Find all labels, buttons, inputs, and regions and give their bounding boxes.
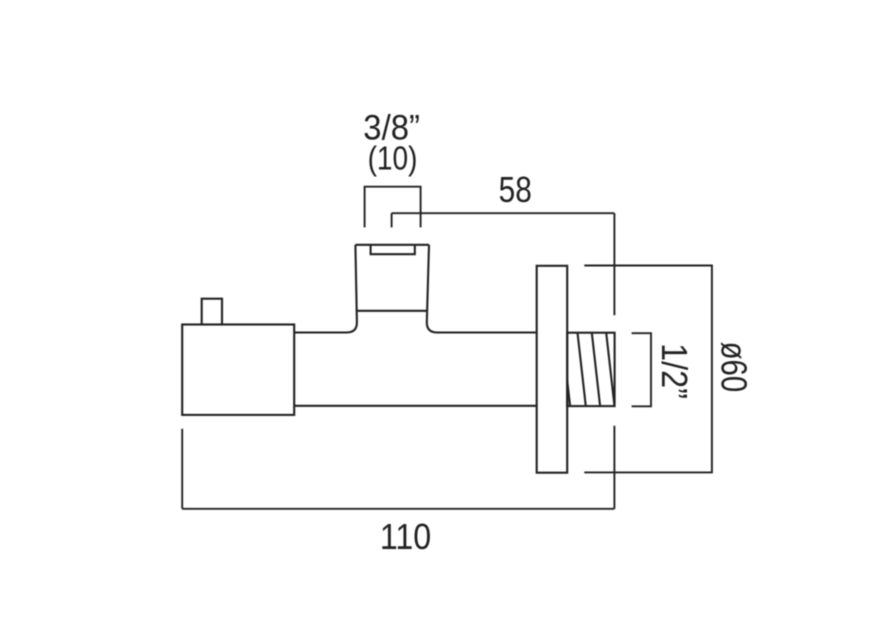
svg-text:110: 110	[380, 517, 431, 557]
handle block (valve body left head)	[182, 325, 294, 415]
outlet top edge	[355, 244, 429, 246]
threaded stub	[567, 333, 614, 406]
dimension 110 extension line	[181, 429, 183, 509]
svg-text:58: 58	[499, 170, 532, 211]
svg-text:1/2”: 1/2”	[654, 343, 694, 399]
knob (valve handle stem)	[202, 299, 222, 325]
wall flange	[537, 266, 568, 473]
outlet left wall with fillet into tube top	[294, 245, 357, 333]
outlet top lip	[371, 245, 415, 254]
dimension bracket 3/8	[365, 187, 421, 228]
dimension line 58 tick	[391, 213, 393, 227]
svg-text:ø60: ø60	[713, 342, 754, 393]
outlet right wall with fillet into tube top	[427, 245, 537, 333]
dimension 58 extension line upper	[613, 213, 615, 315]
svg-text:(10): (10)	[368, 140, 418, 177]
thread hatch lines	[562, 333, 615, 406]
dimension bracket diameter 60	[584, 266, 712, 473]
dimension line 110	[182, 508, 614, 510]
bonnet joint line	[357, 310, 428, 312]
tube bottom edge	[294, 405, 537, 407]
dimension 58 extension line lower	[613, 426, 615, 509]
dimension bracket 1/2	[632, 333, 651, 406]
dimension line 58	[392, 212, 615, 214]
